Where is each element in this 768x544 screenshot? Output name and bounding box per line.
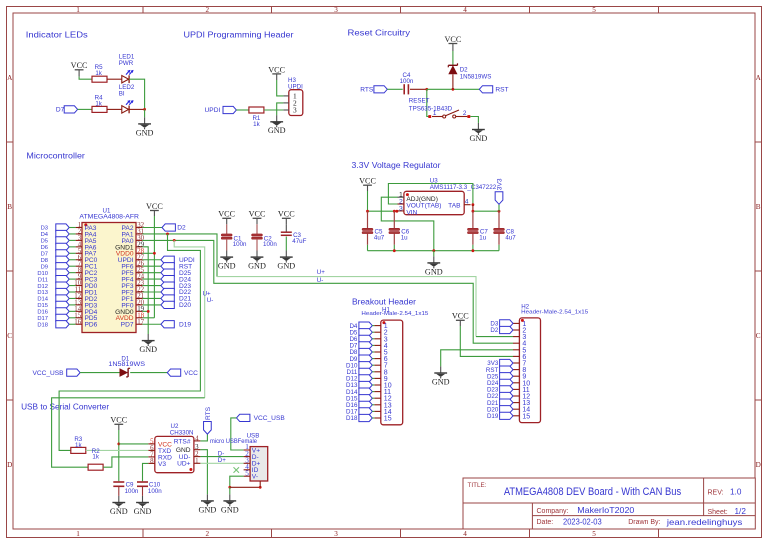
- diode D1 1N5819WS: [120, 368, 129, 377]
- U1 pin 3 PA5: [76, 239, 82, 241]
- svg-text:GND: GND: [218, 262, 236, 271]
- port D23 (H2): [500, 386, 513, 393]
- svg-text:Indicator LEDs: Indicator LEDs: [26, 30, 88, 40]
- svg-text:D18: D18: [37, 322, 48, 328]
- wire D9 to U1 pin 7: [69, 265, 75, 267]
- svg-text:RTS: RTS: [205, 406, 212, 420]
- H1 pin 2: [374, 331, 380, 333]
- svg-text:VCC: VCC: [71, 61, 88, 70]
- junction VCC at U2 pin5: [117, 443, 120, 446]
- port UPDI: [161, 256, 174, 263]
- svg-text:V-: V-: [252, 474, 258, 481]
- port D3: [56, 224, 69, 231]
- U1 pin 13 PD3: [76, 304, 82, 306]
- H2 pin 10: [513, 382, 519, 384]
- svg-text:UPDI: UPDI: [205, 107, 221, 114]
- wire D5 to H1: [372, 331, 374, 333]
- svg-text:5: 5: [592, 530, 596, 538]
- U1 pin 32 PA2: [136, 227, 142, 229]
- capacitor C4: [403, 84, 405, 94]
- port D18 (H1): [359, 414, 372, 421]
- H2 pin 14: [513, 408, 519, 410]
- svg-text:D2: D2: [460, 67, 468, 74]
- svg-text:VCC: VCC: [218, 210, 235, 219]
- ground GND (U1): [147, 334, 149, 340]
- svg-text:D13: D13: [37, 290, 48, 296]
- wire D4 to H1: [372, 325, 374, 327]
- wire 3V3 port to rail: [498, 204, 500, 211]
- H2 pin 11: [513, 388, 519, 390]
- svg-text:ATMEGA4808 DEV Board - With CA: ATMEGA4808 DEV Board - With CAN Bus: [504, 486, 682, 498]
- no-connect X on USB ID: [234, 467, 240, 473]
- svg-text:B: B: [756, 203, 761, 211]
- wire VCC to C2: [256, 224, 258, 234]
- microcontroller U1 ATMEGA4808-AFR body: [82, 223, 136, 333]
- svg-text:D6: D6: [41, 245, 48, 251]
- ground GND (USB): [229, 494, 231, 500]
- wire shield from USB body: [259, 481, 261, 487]
- wire GND1 GND0 to ground: [142, 247, 148, 334]
- port D22 (H2): [500, 392, 513, 399]
- wire U1 pin 22 to D22 port: [142, 291, 161, 293]
- junction TAB: [472, 203, 475, 206]
- wire U1 pin 21 to D21 port: [142, 297, 161, 299]
- wire R1 to H3 pin3: [264, 109, 284, 111]
- svg-text:1k: 1k: [95, 101, 102, 108]
- wire PA0 net U-: [142, 240, 513, 343]
- port D11: [56, 276, 69, 283]
- port RTS (reset): [374, 86, 387, 93]
- svg-text:USB to Serial Converter: USB to Serial Converter: [21, 401, 109, 411]
- port D19 (H2): [500, 412, 513, 419]
- wire VCC down to rail: [367, 191, 369, 211]
- svg-text:GND: GND: [139, 345, 157, 354]
- wire D18 to U1 pin 16: [69, 323, 75, 325]
- svg-text:VCC_USB: VCC_USB: [254, 415, 286, 422]
- H1 pin 8: [374, 371, 380, 373]
- ground GND (C3): [285, 251, 287, 257]
- port D7: [56, 250, 69, 257]
- wire D2 to reset node: [452, 74, 454, 89]
- U1 pin 10 PD0: [76, 285, 82, 287]
- wire R5 to LED1: [107, 78, 122, 80]
- port D24 (H2): [500, 379, 513, 386]
- port D25: [161, 269, 174, 276]
- capacitor C7: [468, 228, 479, 230]
- svg-text:D15: D15: [37, 303, 48, 309]
- port VCC_USB (U1 section): [67, 369, 80, 376]
- wire VDD0 stub: [142, 252, 154, 254]
- H1 pin 11: [374, 391, 380, 393]
- wire output rail: [473, 210, 499, 212]
- port D22: [161, 288, 174, 295]
- svg-text:1k: 1k: [95, 70, 102, 77]
- ground GND (C1): [226, 251, 228, 257]
- port D6: [56, 243, 69, 250]
- wire C6 to gnd rail: [393, 234, 395, 245]
- U1 pin 9 PC3: [76, 278, 82, 280]
- wire C1 to GND: [226, 239, 228, 250]
- wire VCC_USB to USB V+: [231, 418, 244, 450]
- svg-text:3: 3: [399, 205, 403, 212]
- U2 pin 1 UD+: [194, 462, 201, 464]
- svg-text:47uF: 47uF: [292, 238, 306, 245]
- port D5: [56, 237, 69, 244]
- wire VCC to R5: [79, 77, 92, 80]
- wire D7 to R4: [78, 108, 92, 110]
- wire VCC to C3: [285, 224, 287, 231]
- svg-text:2: 2: [206, 6, 210, 14]
- wire D17 to H1: [372, 410, 374, 412]
- ground GND (UPDI header): [276, 115, 278, 121]
- port D20 (H2): [500, 406, 513, 413]
- U3 pin 1 ADJ(GND): [398, 196, 404, 198]
- svg-text:GND: GND: [425, 267, 443, 276]
- port D7: [64, 106, 77, 113]
- svg-text:PWR: PWR: [119, 60, 134, 67]
- svg-text:VCC: VCC: [110, 416, 127, 425]
- junction rail at C6: [393, 210, 396, 213]
- converter U2 CH330N body: [155, 436, 194, 472]
- svg-text:Reset Circuitry: Reset Circuitry: [348, 28, 411, 38]
- svg-text:100n: 100n: [400, 78, 414, 85]
- svg-text:GND: GND: [268, 126, 286, 135]
- wire D7 to U1 pin 5: [69, 252, 75, 254]
- port VCC_USB (USB): [237, 414, 250, 421]
- wire D8 to U1 pin 6: [69, 259, 75, 261]
- port D16: [56, 308, 69, 315]
- capacitor C10: [137, 481, 148, 483]
- port D21: [161, 295, 174, 302]
- H2 pin 12: [513, 395, 519, 397]
- U2 pin 2 UD-: [194, 456, 201, 458]
- U1 pin 7 PC1: [76, 265, 82, 267]
- wire VCC_USB to D1: [80, 372, 119, 374]
- wire rail to C8: [498, 211, 500, 228]
- wire VCC to VDD0 and AVDD: [153, 216, 155, 318]
- svg-text:VCC: VCC: [249, 210, 266, 219]
- USB pin 5 V-: [244, 475, 251, 477]
- H1 pin 15: [374, 417, 380, 419]
- U2 pin 7 RXD: [148, 456, 155, 458]
- svg-text:A: A: [7, 74, 13, 82]
- svg-text:A: A: [756, 74, 762, 82]
- svg-text:2: 2: [206, 530, 210, 538]
- svg-text:15: 15: [522, 413, 530, 420]
- capacitor C1: [221, 234, 232, 236]
- U1 pin 2 PA4: [76, 233, 82, 235]
- svg-text:D2: D2: [177, 225, 186, 232]
- port D23: [161, 282, 174, 289]
- U1 pin 31 PA1: [136, 233, 142, 235]
- svg-text:8: 8: [150, 458, 154, 465]
- svg-text:Date:: Date:: [537, 519, 554, 526]
- svg-text:PD7: PD7: [121, 322, 134, 329]
- port D14: [56, 295, 69, 302]
- wire LED1 to GND rail: [129, 79, 145, 109]
- junction reset node left: [425, 88, 428, 91]
- svg-text:REV:: REV:: [708, 489, 724, 496]
- wire R2 to RXD: [103, 457, 148, 467]
- svg-text:D7: D7: [41, 252, 48, 258]
- header H1 body: [381, 320, 403, 425]
- U1 pin 4 PA6: [76, 246, 82, 248]
- svg-text:RST: RST: [495, 87, 508, 94]
- wire D13 to U1 pin 11: [69, 291, 75, 293]
- capacitor C2: [252, 234, 263, 236]
- svg-text:D19: D19: [487, 413, 499, 420]
- svg-text:3V3: 3V3: [497, 178, 504, 190]
- svg-text:100n: 100n: [125, 488, 139, 495]
- port D21 (H2): [500, 399, 513, 406]
- svg-text:2023-02-03: 2023-02-03: [563, 518, 602, 527]
- svg-text:D14: D14: [37, 297, 48, 303]
- svg-text:micro USBFemale: micro USBFemale: [210, 438, 258, 445]
- port D8: [56, 256, 69, 263]
- H1 pin 3: [374, 338, 380, 340]
- svg-text:TITLE:: TITLE:: [468, 482, 487, 489]
- svg-text:B: B: [7, 203, 12, 211]
- wire C5 to gnd rail: [367, 234, 369, 245]
- svg-text:100n: 100n: [148, 488, 162, 495]
- svg-text:V3: V3: [158, 461, 166, 468]
- H1 pin 12: [374, 397, 380, 399]
- junction PA0 branch: [173, 239, 176, 242]
- svg-text:AMS1117-3.3_C347222: AMS1117-3.3_C347222: [430, 184, 497, 191]
- port D17: [56, 314, 69, 321]
- header H3 UPDI 1x3: [289, 90, 303, 116]
- wire D16 to U1 pin 14: [69, 310, 75, 312]
- svg-text:UPDI: UPDI: [288, 84, 303, 91]
- svg-text:MakerIoT2020: MakerIoT2020: [577, 506, 634, 515]
- junction out rail at C7: [472, 210, 475, 213]
- svg-text:D12: D12: [37, 284, 48, 290]
- port D12: [56, 282, 69, 289]
- wire D5 to U1 pin 3: [69, 239, 75, 241]
- U1 pin 12 PD2: [76, 297, 82, 299]
- wire D10 to U1 pin 8: [69, 272, 75, 274]
- ground GND (U2): [206, 494, 208, 500]
- wire D12 to H1: [372, 377, 374, 379]
- wire D11 to H1: [372, 371, 374, 373]
- wire D10 to H1: [372, 364, 374, 366]
- wire D9 to H1: [372, 358, 374, 360]
- port D9: [56, 263, 69, 270]
- svg-text:Company:: Company:: [537, 508, 569, 515]
- resistor R1: [249, 107, 264, 113]
- junction PA1 branch: [166, 233, 169, 236]
- H2 pin 2: [513, 329, 519, 331]
- svg-text:D8: D8: [41, 258, 48, 264]
- wire PA1 branch down: [59, 234, 200, 450]
- svg-text:1: 1: [76, 6, 80, 14]
- svg-text:BI: BI: [119, 91, 125, 98]
- svg-text:C: C: [7, 332, 12, 340]
- port D24: [161, 276, 174, 283]
- U2 pin 5 VCC: [148, 443, 155, 445]
- svg-text:1N5819WS: 1N5819WS: [108, 361, 145, 368]
- USB pin 1 V+: [244, 449, 251, 451]
- resistor R5: [92, 76, 107, 82]
- svg-text:1u: 1u: [479, 235, 486, 242]
- wire C7 to gnd rail: [472, 234, 474, 245]
- ground GND (H2): [440, 366, 442, 372]
- LED LED2: [122, 106, 129, 113]
- junction shield right: [259, 486, 262, 489]
- wire U1 pin 27 to UPDI port: [142, 259, 161, 261]
- wire rail to C7: [472, 211, 474, 228]
- USB pin 4 ID: [244, 469, 251, 471]
- wire D14 to H1: [372, 391, 374, 393]
- U1 pin 23 PF3: [136, 285, 142, 287]
- port RTS (U2): [204, 422, 212, 435]
- svg-text:VCC: VCC: [359, 177, 376, 186]
- port D6 (H1): [359, 335, 372, 342]
- junction rail at C5: [366, 210, 369, 213]
- U1 pin 25 PF5: [136, 272, 142, 274]
- wire V3 to C10: [143, 463, 149, 481]
- regulator U3 AMS1117-3.3 body: [404, 191, 464, 214]
- svg-text:4u7: 4u7: [505, 235, 516, 242]
- wire UD- to USB D-: [200, 456, 243, 458]
- wire U2 GND down: [200, 450, 207, 495]
- svg-text:D7: D7: [56, 107, 65, 114]
- port RST (reset): [479, 86, 492, 93]
- svg-text:GND: GND: [136, 128, 154, 137]
- svg-text:U+: U+: [317, 269, 325, 276]
- wire reset node to switch: [427, 89, 429, 116]
- svg-text:D10: D10: [37, 271, 48, 277]
- wire U1 pin 20 to D20 port: [142, 304, 161, 306]
- svg-text:D4: D4: [41, 232, 49, 238]
- capacitor C3: [281, 231, 292, 233]
- title block box: [463, 478, 755, 529]
- svg-text:1: 1: [433, 110, 437, 117]
- svg-text:GND: GND: [221, 505, 239, 514]
- wire C2 to GND: [256, 239, 258, 250]
- ground GND (LED section): [144, 117, 146, 123]
- H1 pin 7: [374, 364, 380, 366]
- wire GND0 stub: [142, 310, 148, 312]
- port D14 (H1): [359, 388, 372, 395]
- wire D18 to H1: [372, 417, 374, 419]
- junction gnd rail C7: [472, 249, 475, 252]
- wire rail to C5: [367, 211, 369, 228]
- port D13 (H1): [359, 381, 372, 388]
- svg-text:D: D: [7, 461, 12, 469]
- ground GND (regulator): [433, 256, 435, 262]
- wire D7 to H1: [372, 344, 374, 346]
- H2 pin 7: [513, 362, 519, 364]
- wire U1 pin 24 to D24 port: [142, 278, 161, 280]
- svg-text:TPS635-1B43D: TPS635-1B43D: [409, 105, 453, 112]
- wire reset node: [427, 88, 480, 90]
- wire U+ long horizontal: [217, 277, 476, 337]
- U1 pin 5 PA7: [76, 252, 82, 254]
- wire C3 to GND: [285, 237, 287, 251]
- H1 pin 14: [374, 410, 380, 412]
- port D19: [161, 321, 174, 328]
- svg-text:D11: D11: [38, 277, 48, 283]
- svg-text:D20: D20: [179, 302, 191, 309]
- U1 pin 29 GND1: [136, 246, 142, 248]
- port D3 (H2): [500, 320, 513, 327]
- svg-text:TAB: TAB: [448, 203, 461, 210]
- svg-text:RTS#: RTS#: [174, 438, 191, 445]
- port D18: [56, 321, 69, 328]
- svg-text:3.3V Voltage Regulator: 3.3V Voltage Regulator: [352, 160, 441, 170]
- wire C10 to GND: [142, 487, 144, 496]
- wire C9 to GND: [118, 487, 120, 496]
- wire U1 pin 23 to D23 port: [142, 285, 161, 287]
- wire D17 to U1 pin 15: [69, 317, 75, 319]
- U1 pin 18 AVDD: [136, 317, 142, 319]
- wire AVDD stub: [142, 317, 154, 319]
- pushbutton RESET TPS635-1B43D: [428, 115, 431, 118]
- svg-text:2: 2: [463, 110, 467, 117]
- H2 pin 13: [513, 402, 519, 404]
- wire VCC to H3 pin1: [277, 80, 284, 96]
- svg-text:4: 4: [463, 530, 467, 538]
- wire D8 to H1: [372, 351, 374, 353]
- svg-text:1k: 1k: [253, 121, 260, 128]
- svg-text:1.0: 1.0: [730, 488, 742, 497]
- wire R4 to LED2: [107, 108, 122, 110]
- svg-text:D19: D19: [179, 321, 191, 328]
- H2 pin 1: [513, 322, 519, 324]
- wire D6 to H1: [372, 338, 374, 340]
- U1 pin 11 PD1: [76, 291, 82, 293]
- port D10: [56, 269, 69, 276]
- U1 pin 15 PD5: [76, 317, 82, 319]
- U1 pin 30 PA0: [136, 239, 142, 241]
- svg-text:Header-Male-2.54_1x15: Header-Male-2.54_1x15: [521, 310, 588, 316]
- wire H2 pin5 to GND: [441, 350, 513, 367]
- U2 pin 3 GND: [194, 449, 201, 451]
- wire R3 to TXD: [86, 449, 149, 451]
- svg-text:VCC: VCC: [268, 65, 285, 74]
- U3 pin 2 VOUT(TAB): [398, 203, 404, 205]
- svg-text:U-: U-: [317, 277, 324, 284]
- svg-text:100n: 100n: [233, 241, 247, 248]
- port RST: [161, 263, 174, 270]
- port D9 (H1): [359, 355, 372, 362]
- svg-text:Breakout Header: Breakout Header: [352, 296, 416, 306]
- U1 pin 1 PA3: [76, 227, 82, 229]
- wire D13 to H1: [372, 384, 374, 386]
- junction shield left: [228, 486, 231, 489]
- svg-text:4: 4: [195, 435, 199, 442]
- svg-text:5: 5: [245, 469, 249, 477]
- wire VIN rail: [368, 210, 398, 212]
- svg-text:GND: GND: [470, 134, 488, 143]
- junction GND0: [147, 310, 150, 313]
- port D7 (H1): [359, 342, 372, 349]
- U2 pin 6 TXD: [148, 449, 155, 451]
- svg-text:UPDI Programming Header: UPDI Programming Header: [184, 30, 294, 40]
- junction rail at VIN pin: [396, 210, 399, 213]
- H2 pin 15: [513, 415, 519, 417]
- U1 pin 20 PF0: [136, 304, 142, 306]
- svg-text:UD+: UD+: [177, 461, 191, 468]
- wire UD+ to USB D+: [200, 462, 243, 464]
- port D10 (H1): [359, 362, 372, 369]
- port D16 (H1): [359, 401, 372, 408]
- H2 pin 4: [513, 342, 519, 344]
- U1 pin 14 PD4: [76, 310, 82, 312]
- wire H3 pin2 to GND: [277, 103, 284, 115]
- svg-text:Header-Male-2.54_1x15: Header-Male-2.54_1x15: [361, 311, 428, 317]
